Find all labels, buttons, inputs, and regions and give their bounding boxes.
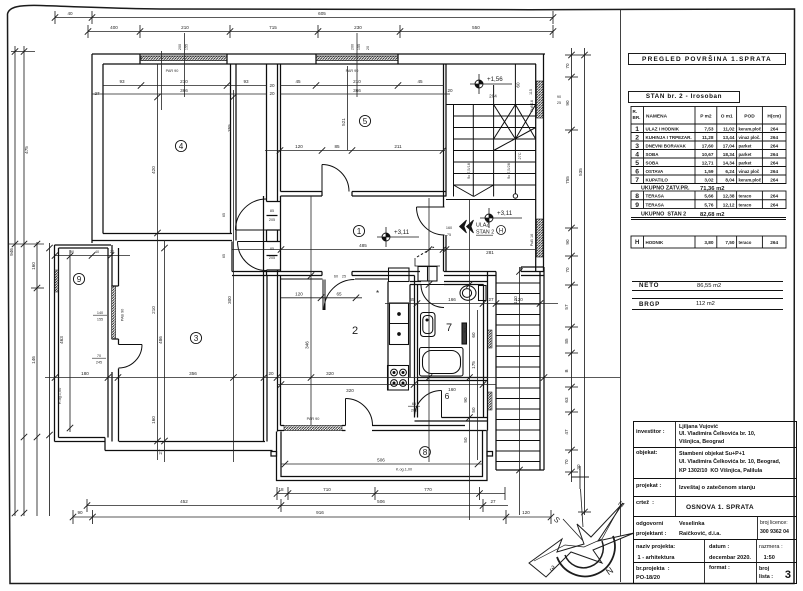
ULAZ STAN 2 arrow [460,220,474,233]
left exterior wall [91,54,93,243]
svg-text:O m1: O m1 [721,114,733,120]
svg-text:12,12: 12,12 [723,202,735,207]
bottom dimension row C [73,510,551,524]
kitchen appliance column walls [387,282,389,391]
vent niche corner [415,258,440,266]
svg-text:parket: parket [739,143,752,148]
svg-text:vinaz ploč.: vinaz ploč. [739,135,761,140]
wall jambs top windows [139,54,141,64]
vestibule west line [231,242,233,272]
window room9/3 strip [112,286,116,339]
bathtub [420,348,464,377]
vertical dim x477 [477,310,479,460]
wall between rooms 4/5 east face, with door gaps [266,64,268,276]
bottom dimension row B [87,499,508,512]
interior dim row room4 y85 [92,86,450,95]
vertical dim x469 [469,200,471,520]
svg-text:SOBA: SOBA [646,160,660,165]
svg-text:TERASA: TERASA [646,202,665,207]
odgovorni row [634,517,796,540]
terasa table rows 8 9 [631,191,786,209]
hand drawn star [529,503,634,577]
top dimension line row2 [88,25,553,38]
svg-text:OSTAVA: OSTAVA [646,169,664,174]
long vertical dim x153 [157,64,159,460]
vertical dim x347 room5 [347,66,349,150]
room 6 bottom wall with door opening [442,417,488,419]
svg-text:HODNIK: HODNIK [646,240,664,245]
left dimension line x=24 [23,46,25,516]
svg-text:SOBA: SOBA [646,152,660,157]
svg-text:parket: parket [739,152,752,157]
terrace 8 outline [271,431,493,481]
room 5 [359,115,370,126]
BRGP summary [632,298,783,299]
window right wall strips [537,81,544,118]
bottom dimension row A [277,487,505,500]
svg-text:12,71: 12,71 [702,160,714,165]
door room9 to room3 [119,344,143,346]
svg-text:7,50: 7,50 [725,240,735,245]
svg-text:264: 264 [770,169,778,174]
svg-text:11,28: 11,28 [702,135,714,140]
right exterior wall upper block [543,54,545,272]
room 4 [175,140,186,151]
svg-text:264: 264 [770,160,778,165]
door room6 to terrace [441,391,443,418]
right panel: STAN title box [628,91,740,103]
arcs [557,536,615,576]
svg-text:264: 264 [770,135,778,140]
svg-text:teraco: teraco [739,240,752,245]
svg-text:parket: parket [739,160,752,165]
toilet [479,286,487,301]
bathroom dim row y303 [385,303,558,305]
projekat row [634,479,796,497]
long vertical dim x233 [233,90,235,462]
main horizontal dim line y377 [45,377,620,379]
svg-text:17,04: 17,04 [723,143,735,148]
svg-text:KUHINJA I TRPEZAR.: KUHINJA I TRPEZAR. [646,135,692,140]
svg-text:7: 7 [635,177,639,184]
svg-text:264: 264 [770,177,778,182]
hall H below stairs bottom wall [521,266,544,268]
svg-text:11,02: 11,02 [723,126,735,131]
window room9 left parapet mark [55,270,59,292]
vertical dim x306 room2 [310,196,312,425]
svg-text:5: 5 [635,160,639,167]
svg-text:3,80: 3,80 [704,240,714,245]
room 4 right wall [230,64,232,234]
right dimension line x=571 [565,48,578,315]
dims above room9 [55,255,130,257]
door kitchen to terrace [345,399,347,426]
kitchen bottom wall with window and door opening [281,425,466,427]
room 3 [190,332,201,343]
svg-text:17,60: 17,60 [702,143,714,148]
bathroom left wall [414,276,416,418]
svg-text:264: 264 [770,143,778,148]
lower block right wall [483,285,485,418]
windows hatched: top wall [141,56,227,61]
level marker corridor +3.11 [377,227,419,247]
panel separator line [620,9,622,582]
stair cross diagonals [494,105,516,140]
vertical dim x429 [428,198,430,462]
svg-text:DNEVNI BORAVAK: DNEVNI BORAVAK [646,143,687,148]
kitchen fixtures: sink cabinet [388,267,438,391]
window kitchen bottom [284,426,342,431]
left dimension line x=15 overall [9,46,44,516]
svg-text:264: 264 [770,126,778,131]
svg-text:KUPATILO: KUPATILO [646,177,669,182]
svg-text:13,44: 13,44 [723,135,735,140]
bathroom fixtures: washbasin [420,286,487,377]
long vertical dim x164 [164,240,166,462]
svg-text:5,66: 5,66 [704,194,714,199]
svg-text:14,34: 14,34 [723,160,735,165]
svg-text:3: 3 [635,143,639,150]
right dimension line x=584 overall [578,48,591,515]
top exterior wall inner [103,63,536,65]
door lintel marks vestibule [267,201,281,203]
left dimension line x=37 [31,242,44,516]
svg-text:keram.ploč: keram.ploč [739,177,762,182]
vertical dim x519 [519,267,521,515]
svg-text:8,04: 8,04 [725,177,735,182]
investitor row [634,422,796,448]
svg-text:POD: POD [744,114,755,120]
terrace 8 inner dim [281,463,483,465]
svg-text:4: 4 [635,152,639,159]
stair treads interior [446,64,536,200]
room 4 bottom wall [103,233,232,235]
top dimension line row1 [55,11,553,24]
room 8 [420,447,431,458]
svg-text:6: 6 [635,169,639,176]
title block table [633,421,797,584]
room 5 bottom wall with door opening [281,191,447,193]
svg-text:6,24: 6,24 [725,169,735,174]
svg-text:2: 2 [635,135,639,142]
interior dim row y150 [265,150,445,152]
wall room9/room3 with window+door strip [107,248,109,438]
kitchen door dim row [281,297,362,299]
door corridor/hall entrance [417,207,445,235]
radiator niche [462,323,467,344]
svg-text:teraco: teraco [739,202,752,207]
door bathroom [421,284,444,286]
window centerline dims [162,33,358,110]
NETO summary [632,281,783,282]
doors: room5 door arc [119,165,445,426]
exterior stair treads [496,283,540,462]
svg-text:H(cm): H(cm) [767,114,781,120]
svg-text:7,53: 7,53 [704,126,714,131]
door vestibule to room3 [238,241,267,243]
H HODNIK table [631,236,786,248]
svg-text:P m2: P m2 [700,114,712,120]
svg-text:teraco: teraco [739,194,752,199]
svg-text:1: 1 [635,126,639,133]
bathroom bottom wall [418,377,488,379]
corridor bottom wall [232,271,544,273]
svg-text:TERASA: TERASA [646,194,665,199]
br projekta row [634,563,796,583]
hall H [497,226,506,235]
svg-text:UKUPNO STAN 2: UKUPNO STAN 2 [641,212,686,218]
exterior side stair band [495,272,497,471]
svg-text:5,76: 5,76 [704,202,714,207]
svg-text:12,38: 12,38 [723,194,735,199]
naziv row [634,540,796,563]
room 1 [353,225,364,236]
crtez row [634,497,796,517]
svg-text:keram.ploč: keram.ploč [739,126,762,131]
stair bottom V [454,185,474,197]
svg-text:264: 264 [770,194,778,199]
room 9 [73,273,84,284]
area table PREGLED [631,107,786,184]
svg-text:264: 264 [770,202,778,207]
door kitchen from corridor [322,280,324,311]
svg-text:ULAZ I HODNIK: ULAZ I HODNIK [646,126,680,131]
stove [388,366,409,391]
stair shaft left wall [443,64,445,272]
svg-text:H: H [635,240,639,246]
svg-text:NAMENA: NAMENA [646,114,668,120]
svg-text:264: 264 [770,240,778,245]
bathroom top wall [410,281,488,283]
svg-text:R.: R. [633,109,638,114]
door vestibule to room4 [236,229,267,231]
room 3 right wall [263,196,265,442]
kitchen dim line y384 [277,384,496,386]
closet by bathroom door [418,267,437,282]
kitchen left wall lower [277,276,279,432]
level marker hall +3.11 [480,208,522,228]
right panel: PREGLED title box [628,53,786,65]
svg-text:82,68 m2: 82,68 m2 [700,212,725,218]
room 3 bottom wall [119,441,265,443]
objekat row [634,448,796,479]
room 9 inner vertical dim [69,250,71,432]
top exterior wall outer [92,53,545,55]
left dimension line x=49 [49,243,51,516]
svg-text:9: 9 [635,202,639,209]
svg-text:3,02: 3,02 [704,177,714,182]
svg-text:18,34: 18,34 [723,152,735,157]
room 9 walls [54,245,56,442]
svg-text:vinaz ploč: vinaz ploč [739,169,760,174]
svg-text:BR.: BR. [633,115,641,120]
svg-text:1,59: 1,59 [704,169,714,174]
right dimension line x=571 lower part [565,315,578,482]
svg-text:10,67: 10,67 [702,152,714,157]
room number labels [73,115,505,457]
svg-text:8: 8 [635,193,639,200]
svg-text:264: 264 [770,152,778,157]
level marker +1.56 [470,74,512,94]
windows lower right wall [488,330,493,348]
corridor dim row y249 [232,249,535,251]
